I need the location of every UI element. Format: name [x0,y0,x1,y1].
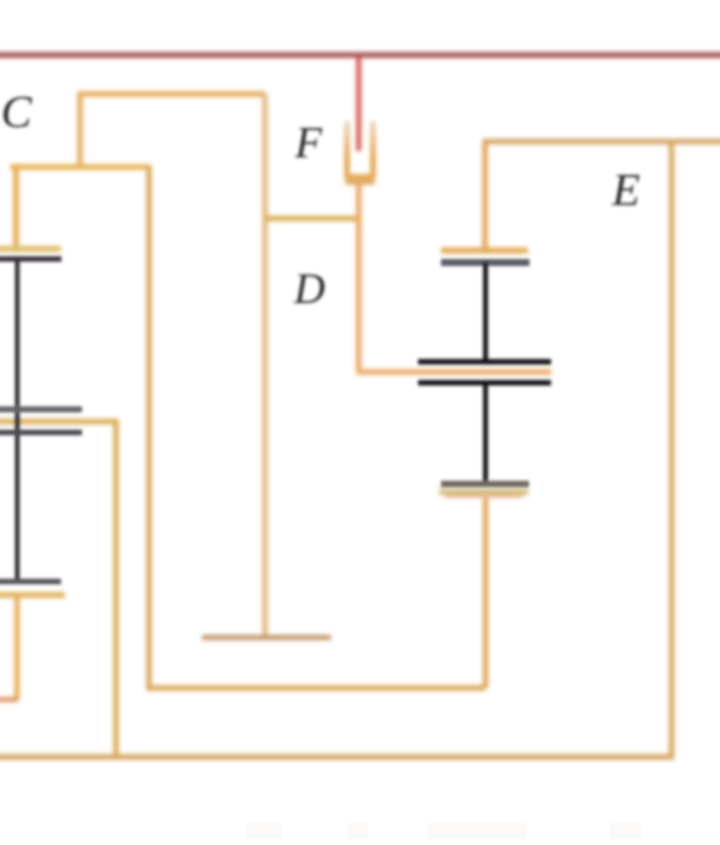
svg-text:C: C [1,86,33,137]
svg-text:D: D [293,266,325,313]
svg-text:F: F [294,118,323,167]
svg-text:E: E [611,164,640,215]
